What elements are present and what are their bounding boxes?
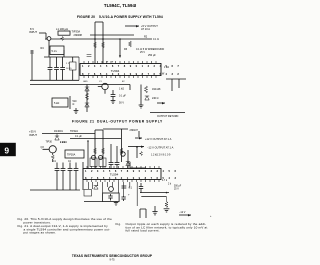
wire caps right rail 2 [82,162,84,190]
svg-text:+12 V OUTPUT AT 1 A: +12 V OUTPUT AT 1 A [145,137,172,141]
diode CR4 label [54,130,63,133]
wire Q3 leads [43,149,53,155]
wire out arrow 3 [128,146,144,148]
wire right drop b [178,79,180,88]
wire top rail [51,38,152,40]
wire sense drop [119,39,121,57]
svg-text:Q3: Q3 [41,146,45,149]
diode CR3 [145,96,149,100]
resistor R6 box [52,98,68,107]
node return label [157,115,179,118]
svg-text:25 V: 25 V [140,51,145,54]
sub box [103,193,120,202]
capacitor C15 [121,196,125,201]
IC U2 top pin ticks [87,166,159,169]
node plus mark [128,193,130,197]
resistor on riser a [94,42,97,48]
left small box below IC2 [84,190,92,197]
value row B [140,51,156,57]
IC U1 label [111,69,120,73]
capacitor C12 [139,183,143,193]
wire caps top rail [44,56,79,58]
wire output return line [150,112,185,114]
wire corner fig2 right [130,162,146,168]
svg-text:R3: R3 [124,48,128,51]
caps top labels 2 [53,161,72,163]
footer line [72,254,153,261]
capacitor polarity marks [107,60,114,64]
svg-text:500 μF: 500 μF [174,186,182,188]
drops below IC2 [89,182,138,206]
node W label right [160,73,165,76]
svg-text:250 μF: 250 μF [148,54,156,57]
IC U2 label [110,172,119,176]
wire left drop [48,40,50,57]
resistor on riser b [102,42,105,48]
ground G2 [111,101,116,104]
resistor R7 [85,93,88,100]
resistor R1 [61,37,64,41]
svg-text:OUTPUT RETURN: OUTPUT RETURN [157,115,179,118]
resistor R6 label [54,102,59,105]
capacitor near IC top [87,55,92,57]
resistor R10 [120,148,123,154]
node VCC label right [164,66,169,69]
wire riser pin8 [102,22,104,64]
svg-text:C1: C1 [99,81,103,83]
wire left branch [31,50,33,80]
svg-text:0.1 Ω: 0.1 Ω [153,38,159,41]
node top corner label [130,129,139,132]
transistor Q3 [49,146,56,153]
svg-text:Fig.: Fig. [116,222,122,226]
svg-text:50 V: 50 V [119,102,124,105]
svg-text:1N4001: 1N4001 [54,130,63,133]
node +12V label [145,137,172,141]
capacitor C3 [60,57,65,80]
resistor R3 [129,41,132,47]
IC U1 TL594 body [80,64,161,76]
capacitor C8 [55,163,60,191]
svg-text:+: + [112,60,114,64]
driver box label [67,154,76,157]
svg-text:INPUT: INPUT [29,30,37,34]
capacitor C5 label [70,130,82,138]
svg-text:2N6107: 2N6107 [130,129,139,132]
wire right rail A [140,85,142,106]
resistor R12 [51,155,54,159]
svg-text:put stages as shown.: put stages as shown. [24,231,57,235]
transistor circle a [92,156,96,160]
IC U1 bottom pin ticks [84,76,156,79]
diode CR5 [94,186,98,190]
IC U2 bottom pin numbers [85,176,178,180]
transistor circle b [99,156,103,160]
svg-text:C1: C1 [53,161,57,163]
wire top corner 2 [103,129,139,137]
caption left block [18,217,113,235]
capacitor C4 [111,90,116,101]
svg-text:TL594: TL594 [110,172,119,176]
svg-text:1.2 kΩ 2 N 6 1 0 9: 1.2 kΩ 2 N 6 1 0 9 [151,154,171,157]
ground G3 [139,105,144,108]
ground G5 [114,202,118,206]
node feedback label [73,100,78,106]
node input label 2 [29,130,37,137]
wire riser 2a [94,130,96,169]
svg-text:E2: E2 [122,81,125,83]
chapter tab 9 [0,143,16,156]
wire mid rail [90,34,134,36]
small box above IC2 a [90,158,97,167]
wire top jumper [95,21,103,23]
wire jumper 2 [95,129,103,131]
svg-text:240 Ω: 240 Ω [152,97,159,100]
svg-text:1 kΩ: 1 kΩ [164,66,169,69]
svg-text:1N4148: 1N4148 [152,88,161,91]
capacitor C13 [122,186,127,188]
wire mid rail 2 [70,138,121,140]
junction vin [45,38,47,40]
wire riser 2b [102,130,104,169]
wire out arrow 2 [135,137,142,139]
resistor on riser 2b [102,148,105,154]
svg-text:TL594: TL594 [111,69,120,73]
pin label row [66,63,72,70]
resistor R13 [165,197,168,208]
ground G4 [164,209,170,212]
svg-text:TIP33A: TIP33A [72,30,81,34]
resistor on riser 2a [94,148,97,154]
svg-text:Ω: Ω [73,103,75,106]
node -12V label [147,145,174,149]
svg-text:5.1 k: 5.1 k [52,50,58,53]
svg-text:1 2 3 4 5 6 7 8 9 0 1 2 3 4 5: 1 2 3 4 5 6 7 8 9 0 1 2 3 4 5 6 [85,169,178,173]
driver box [65,150,84,158]
svg-text:FIGURE 20: FIGURE 20 [77,15,95,19]
wire input rail 2 [42,133,95,135]
junction dots rail [94,38,121,40]
node +5V OUTPUT label [141,24,158,31]
diode CR1 [85,87,89,91]
diode CR2 [85,103,89,107]
svg-text:TL594C, TL594I: TL594C, TL594I [104,3,136,8]
transistor Q1 [47,37,51,41]
labels right of IC2 [162,180,182,191]
svg-text:16 15: 16 15 [66,68,72,70]
capacitor C9 [61,163,66,191]
node label lower right [179,211,212,218]
node 0.1 label [129,187,133,190]
svg-text:−12 V OUTPUT AT 1 A: −12 V OUTPUT AT 1 A [147,145,174,149]
svg-text:9: 9 [4,145,9,155]
svg-text:TIP30A: TIP30A [67,154,76,157]
label row fig2 right [151,154,171,157]
component above IC2 c [126,150,130,169]
capacitor C2 [54,57,59,80]
IC U1 top pin ticks [84,61,156,64]
divider box [50,46,64,55]
node Q3 base label [41,146,45,149]
junction lower [166,192,168,194]
svg-text:1 W: 1 W [160,73,165,76]
wire Q2 leads [98,87,105,94]
svg-text:−12 V: −12 V [179,211,186,214]
capacitor C7 [115,146,120,169]
header part number [104,3,136,8]
small box above IC2 b [99,158,106,167]
svg-text:R4: R4 [41,47,45,50]
svg-text:+: + [128,193,130,197]
svg-text:4.7 k: 4.7 k [162,180,168,182]
component left small [30,51,34,53]
wire lower rail b [141,196,166,198]
junction dot 2 [87,140,89,142]
svg-text:TIP30: TIP30 [46,140,53,143]
svg-text:2 k: 2 k [168,184,172,186]
IC U2 TL594 body [83,169,161,180]
IC U1 bottom pin numbers [82,72,181,76]
wire arrow lower [179,214,191,216]
capacitor C14 [108,194,112,201]
IC U1 top pin numbers [82,64,181,68]
svg-text:5 kΩ: 5 kΩ [54,102,59,105]
transistor Q4 [109,187,114,192]
transistor Q1 type label [72,30,83,37]
inductor L1 [58,31,70,35]
node R4 label [41,47,45,50]
wire input drop [45,33,47,39]
wire right top rail [166,78,186,80]
resistor R8 [144,86,147,93]
value row A [124,48,164,51]
IC U2 top pin numbers [85,169,178,173]
wire R6 lead [69,96,71,109]
value labels mid [119,88,126,105]
wire output arrow [125,25,139,27]
resistor R9 label [60,141,67,144]
svg-text:0.1 μF: 0.1 μF [119,95,126,98]
capacitor C1 [48,57,53,80]
svg-text:FIGURE 21: FIGURE 21 [72,120,95,124]
svg-text:8 7 6 5 4 3 2 1 0 9 8 7 6 5 4: 8 7 6 5 4 3 2 1 0 9 8 7 6 5 4 3 2 [82,72,181,76]
bracket box lower [140,209,146,218]
svg-text:5-V/10-A POWER SUPPLY WITH TL5: 5-V/10-A POWER SUPPLY WITH TL594 [99,15,163,19]
svg-text:25 V: 25 V [174,189,179,191]
transistor Q5 [121,152,125,156]
wire return arrow [157,102,165,104]
ground G6 [152,206,157,215]
svg-text:+: + [107,60,109,64]
resistor R5 [70,57,80,80]
labels right chain [152,88,161,100]
svg-text:1 kΩ: 1 kΩ [60,141,65,144]
figure 2 title [72,120,163,124]
wire right drop a [171,79,173,91]
node Q3 label [46,140,66,143]
svg-text:full rated load current.: full rated load current. [126,229,160,233]
svg-text:0.1 μF: 0.1 μF [75,135,82,138]
node VIN input label [29,27,37,34]
svg-text:0.1: 0.1 [129,187,133,190]
IC U2 bottom pin ticks [87,180,159,183]
wire box right drop [63,50,65,57]
svg-text:R2: R2 [144,36,148,39]
capacitor C6 [109,144,114,169]
svg-text:9-75: 9-75 [109,258,115,261]
svg-text:INPUT: INPUT [29,133,37,137]
wire below rail [30,84,130,86]
figure 1 title [77,15,163,19]
svg-text:AT 10 A: AT 10 A [141,27,150,31]
divider box text [52,50,58,53]
wire caps bottom rail [30,79,79,81]
svg-text:1 kΩ: 1 kΩ [119,88,124,91]
wire chain rail [86,85,88,113]
caption right block [116,222,208,233]
wire riser pin11 [94,22,96,64]
pin name marks below IC1 [83,81,125,83]
wire fig2 x137 [136,146,138,158]
svg-text:DUAL-OUTPUT POWER SUPPLY: DUAL-OUTPUT POWER SUPPLY [97,120,163,124]
capacitor C10 [68,163,73,191]
wire lower rail a [140,192,169,194]
resistor R2 label [144,36,159,42]
svg-text:TIP42A: TIP42A [70,130,78,133]
wire Q3 emitter drop [52,159,54,162]
wire input lead [39,32,46,34]
svg-text:GND: GND [83,81,88,83]
resistor R11 [140,152,143,156]
svg-text:2N6488: 2N6488 [74,34,83,37]
wire caps bottom 2 [30,189,80,191]
capacitor C11 [74,163,79,191]
diode CR4 [55,134,59,141]
wire sense rail 2 [120,129,122,162]
wire sub box left lead [84,201,103,203]
wire chain rail 2 [87,141,89,169]
transistor Q2 [102,83,108,89]
ground G1 [74,108,79,114]
inductor L1 label [56,27,68,31]
svg-text:+: + [210,215,212,218]
